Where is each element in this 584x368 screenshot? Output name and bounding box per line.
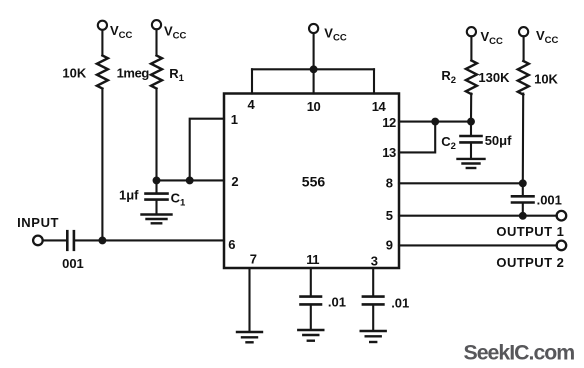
svg-text:5: 5 bbox=[386, 208, 393, 223]
Vcc terminal (left, 10K) bbox=[98, 21, 107, 30]
resistor 10K (right) bbox=[518, 61, 529, 95]
svg-text:1meg: 1meg bbox=[117, 66, 150, 81]
svg-text:1: 1 bbox=[231, 112, 238, 127]
wire bbox=[522, 94, 525, 184]
svg-text:3: 3 bbox=[371, 253, 378, 268]
wire bbox=[101, 89, 103, 241]
wire pin3 bbox=[372, 268, 374, 296]
wire pin4 stub bbox=[251, 69, 253, 93]
wire Vcc bus bbox=[252, 68, 374, 70]
wire pin13 bbox=[399, 122, 435, 153]
svg-text:INPUT: INPUT bbox=[17, 215, 59, 230]
resistor R2 130K bbox=[466, 61, 477, 95]
svg-text:130K: 130K bbox=[478, 70, 510, 85]
wire pin5 bbox=[399, 215, 557, 217]
capacitor .001 (output) bbox=[522, 183, 524, 195]
capacitor .01 (pin11) bbox=[301, 295, 322, 298]
capacitor C1 1uF bbox=[155, 180, 157, 192]
svg-text:10K: 10K bbox=[534, 72, 558, 87]
wire pin12 bbox=[399, 121, 471, 123]
ground (C2) bbox=[458, 158, 485, 160]
svg-text:10K: 10K bbox=[62, 65, 86, 80]
node junction pin13 link bbox=[432, 119, 438, 125]
wire pin2 bbox=[157, 179, 225, 181]
svg-text:14: 14 bbox=[372, 99, 387, 114]
svg-text:11: 11 bbox=[306, 252, 319, 267]
svg-text:OUTPUT 2: OUTPUT 2 bbox=[496, 255, 564, 270]
wire pin11 bbox=[310, 268, 312, 296]
node junction pin1 drop bbox=[187, 178, 193, 184]
svg-text:6: 6 bbox=[228, 237, 235, 252]
OUTPUT 2 terminal bbox=[557, 241, 567, 251]
wire bbox=[101, 30, 103, 56]
node junction input/10K bbox=[100, 238, 106, 244]
capacitor 001 (input coupling) bbox=[66, 231, 69, 250]
svg-text:.01: .01 bbox=[391, 296, 409, 311]
svg-text:8: 8 bbox=[386, 176, 393, 191]
svg-text:7: 7 bbox=[250, 252, 257, 267]
svg-text:1μf: 1μf bbox=[119, 188, 139, 203]
node junction pin8/10K bbox=[520, 180, 526, 186]
wire pin7 bbox=[248, 268, 250, 331]
svg-text:50μf: 50μf bbox=[485, 133, 512, 148]
wire pin10 stub bbox=[313, 69, 315, 93]
wire pin8 bbox=[399, 182, 523, 184]
wire bbox=[470, 94, 472, 122]
wire pin9 bbox=[399, 244, 557, 246]
resistor R1 1meg bbox=[151, 56, 162, 89]
Vcc terminal (R2) bbox=[467, 27, 476, 36]
wire pin6 bbox=[75, 239, 224, 241]
wire pin1 bbox=[190, 119, 224, 181]
svg-text:9: 9 bbox=[386, 238, 393, 253]
svg-text:13: 13 bbox=[382, 145, 396, 160]
op IC 556 box U1 bbox=[224, 94, 399, 269]
wire bbox=[470, 36, 472, 60]
svg-text:.001: .001 bbox=[537, 193, 562, 208]
wire bbox=[43, 239, 66, 241]
Vcc terminal (10K right) bbox=[519, 27, 528, 36]
node junction R2/C2 bbox=[468, 119, 474, 125]
svg-text:12: 12 bbox=[382, 115, 396, 130]
svg-text:.01: .01 bbox=[328, 295, 346, 310]
INPUT terminal bbox=[33, 236, 43, 246]
svg-text:10: 10 bbox=[307, 99, 321, 114]
resistor 10K (left) bbox=[97, 56, 108, 89]
svg-text:SeekIC.com: SeekIC.com bbox=[464, 340, 575, 364]
svg-text:OUTPUT 1: OUTPUT 1 bbox=[496, 224, 564, 239]
Vcc terminal (R1) bbox=[152, 20, 161, 29]
capacitor .01 (pin3) bbox=[363, 295, 384, 298]
wire bbox=[313, 33, 315, 69]
wire pin14 stub bbox=[373, 69, 375, 93]
capacitor C2 50uf bbox=[470, 122, 472, 135]
node junction cap/pin5 bbox=[520, 213, 526, 219]
wire bbox=[155, 29, 157, 55]
node junction bus/Vcc bbox=[311, 66, 317, 72]
svg-text:4: 4 bbox=[248, 97, 256, 112]
wire bbox=[523, 36, 525, 61]
ground (pin11) bbox=[298, 329, 323, 331]
wire bbox=[155, 89, 157, 181]
svg-text:2: 2 bbox=[231, 174, 238, 189]
svg-text:001: 001 bbox=[62, 256, 84, 271]
ground (C1) bbox=[142, 213, 172, 215]
ground (pin7) bbox=[237, 331, 262, 333]
Vcc terminal (center) bbox=[309, 24, 318, 33]
svg-text:556: 556 bbox=[302, 174, 326, 190]
OUTPUT 1 terminal bbox=[557, 211, 567, 221]
node junction R1/C1/pin2 bbox=[154, 178, 160, 184]
ground (pin3) bbox=[361, 330, 386, 332]
